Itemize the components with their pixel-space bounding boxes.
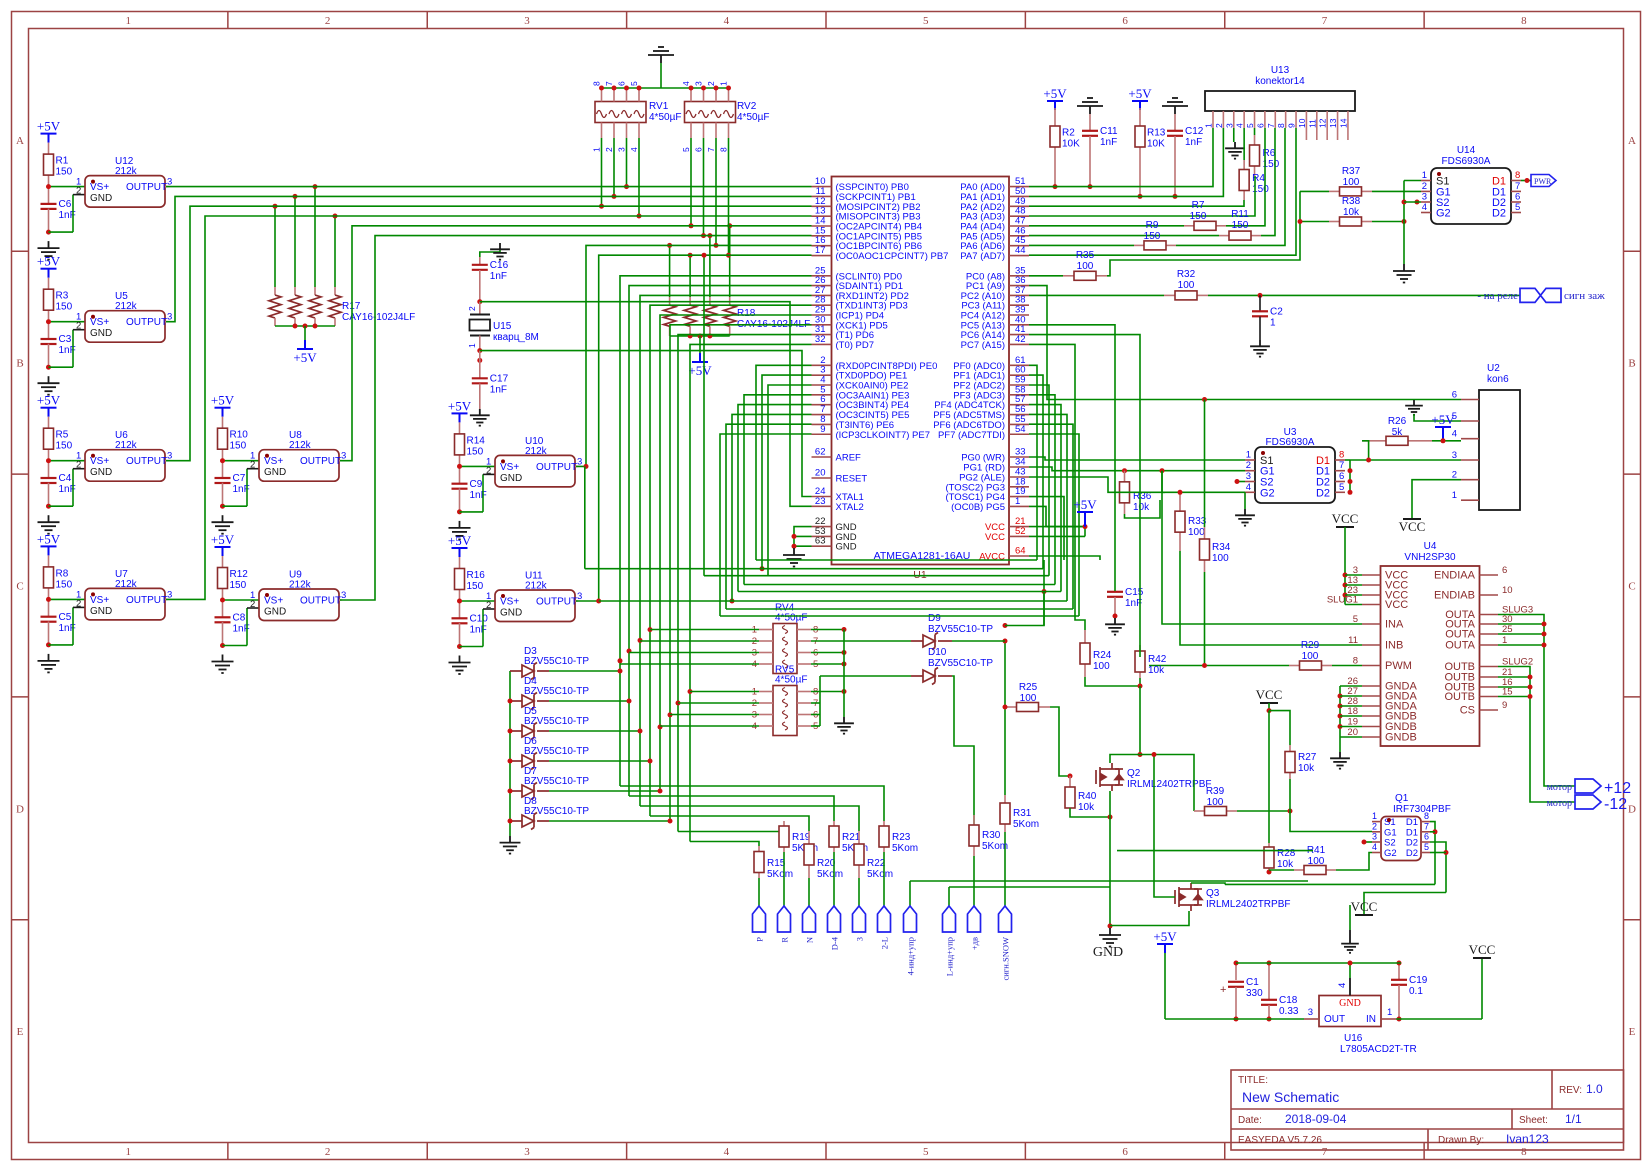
wire U8 out to PB4 [340, 226, 812, 461]
wire [49, 598, 86, 600]
svg-text:100: 100 [1093, 661, 1110, 672]
pin 2 [812, 364, 832, 366]
capacitor C11 1nF [1089, 114, 1091, 131]
svg-text:1: 1 [1204, 123, 1214, 128]
pin 11 [812, 195, 832, 197]
svg-text:PC7 (A15): PC7 (A15) [961, 340, 1005, 351]
svg-text:+5V: +5V [448, 533, 472, 548]
svg-text:OUTA: OUTA [1445, 640, 1475, 652]
pin 12 [812, 205, 832, 207]
wire gnd stem U16 [1349, 963, 1351, 978]
svg-text:5Kom: 5Kom [982, 841, 1008, 852]
svg-text:3: 3 [617, 147, 627, 152]
wire pa7 [1029, 128, 1296, 255]
connector U2 kon6 [1479, 390, 1520, 510]
svg-text:сигн заж: сигн заж [1564, 290, 1605, 302]
wire [690, 138, 692, 226]
svg-text:R27: R27 [1298, 752, 1317, 763]
pin 60 [1009, 374, 1029, 376]
svg-text:R39: R39 [1206, 786, 1225, 797]
svg-text:S2: S2 [1384, 838, 1396, 849]
svg-text:3: 3 [1246, 471, 1251, 482]
pin 5 [812, 394, 832, 396]
svg-text:7: 7 [1266, 123, 1276, 128]
svg-text:PF7 (ADC7TDI): PF7 (ADC7TDI) [938, 430, 1005, 441]
capacitor C8 1nF [222, 600, 224, 617]
svg-text:4: 4 [1422, 202, 1427, 213]
wire RV5 right pins [811, 691, 844, 693]
svg-text:6: 6 [1339, 471, 1344, 482]
ground [46, 504, 51, 509]
svg-text:7: 7 [1424, 821, 1429, 831]
svg-text:1: 1 [719, 81, 729, 86]
svg-text:+5V: +5V [1043, 86, 1067, 101]
svg-text:150: 150 [1144, 231, 1161, 242]
svg-text:B: B [1628, 358, 1635, 370]
wire PWM from R42 area [1148, 665, 1150, 667]
svg-text:10: 10 [1297, 118, 1307, 128]
svg-text:R18: R18 [737, 308, 756, 319]
resistor array RV1 4*50uF [595, 102, 646, 123]
pin 23 [812, 505, 832, 507]
svg-text:VS+: VS+ [90, 317, 109, 328]
pin 42 [1009, 343, 1029, 345]
svg-text:RV1: RV1 [649, 101, 669, 112]
wire U3 drains [1345, 459, 1350, 461]
svg-text:5: 5 [1515, 202, 1520, 213]
svg-text:1: 1 [592, 147, 602, 152]
wire [223, 460, 260, 462]
wire [1372, 221, 1404, 223]
svg-text:C9: C9 [470, 479, 483, 490]
pin 56 [1009, 414, 1029, 416]
svg-text:3: 3 [1308, 1007, 1313, 1018]
connector U13 konektor14 [1205, 91, 1355, 111]
op-amp U10 212k [495, 455, 575, 487]
power VCC for U4 [1336, 526, 1354, 528]
svg-text:(ICP3CLKOINT7) PE7: (ICP3CLKOINT7) PE7 [836, 430, 931, 441]
capacitor C7 1nF [222, 461, 224, 478]
wire pc7 to R24 [1029, 344, 1085, 630]
capacitor C10 1nF [459, 601, 461, 618]
ground [1244, 492, 1246, 509]
wire [720, 615, 1079, 617]
wire R40 bottom to Q2 source [1070, 808, 1110, 817]
svg-text:2: 2 [325, 1146, 331, 1158]
ground for U1 [794, 527, 812, 547]
wire vertical at U14 [1403, 181, 1405, 265]
svg-text:+5V: +5V [37, 531, 61, 546]
capacitor C12 1nF [1174, 114, 1176, 131]
net flag D-4 [833, 852, 835, 906]
capacitor C9 1nF [459, 466, 461, 483]
pin 27 [1362, 695, 1381, 697]
svg-text:2: 2 [1246, 460, 1251, 471]
resistor R13 10K [1139, 108, 1141, 126]
wire from PB7 line down [703, 255, 705, 576]
op-amp U6 212k [85, 450, 165, 482]
svg-text:CS: CS [1460, 705, 1475, 717]
svg-text:C12: C12 [1185, 126, 1204, 137]
svg-text:+5V: +5V [1073, 497, 1097, 512]
wire R41 to Q1 G2 [1336, 853, 1372, 871]
ground [843, 630, 845, 718]
svg-text:4: 4 [1452, 429, 1457, 440]
op-amp U11 212k [495, 590, 575, 622]
svg-text:7: 7 [1322, 15, 1328, 27]
wire [756, 559, 1037, 561]
svg-text:RV2: RV2 [737, 101, 757, 112]
wire bottom bus y841 [690, 842, 759, 847]
wire AVCC [1029, 556, 1100, 560]
pin 52 [1009, 535, 1029, 537]
svg-text:2: 2 [486, 465, 491, 476]
svg-text:ENDIAB: ENDIAB [1434, 590, 1475, 602]
svg-text:C15: C15 [1125, 587, 1144, 598]
wire D10 [820, 675, 911, 677]
wire [629, 286, 812, 796]
pin 22 [812, 526, 832, 528]
wire [1300, 221, 1329, 223]
svg-text:12: 12 [1318, 118, 1328, 128]
pin 19 [1362, 726, 1381, 728]
svg-text:212k: 212k [115, 166, 138, 177]
svg-text:8: 8 [1521, 1146, 1527, 1158]
wire [732, 414, 812, 601]
svg-text:3: 3 [524, 15, 530, 27]
net flag R [783, 852, 785, 906]
pin 61 [1009, 364, 1029, 366]
svg-text:7: 7 [706, 147, 716, 152]
pin 46 [1009, 235, 1029, 237]
svg-text:D2: D2 [1406, 838, 1418, 849]
wire PG5 [1029, 506, 1085, 526]
svg-text:VCC: VCC [1351, 899, 1378, 914]
svg-text:64: 64 [1015, 546, 1026, 557]
wire pa1 [1029, 128, 1223, 196]
svg-text:A: A [1628, 135, 1636, 147]
ground [220, 643, 225, 648]
wire [49, 644, 74, 646]
svg-text:5Kom: 5Kom [767, 869, 793, 880]
svg-text:4*50µF: 4*50µF [649, 112, 681, 123]
resistor network R18 CAY16-102J4LF [669, 297, 671, 305]
pin 16 [812, 245, 832, 247]
svg-text:8: 8 [592, 81, 602, 86]
svg-text:100: 100 [1343, 177, 1360, 188]
resistor R28 10k [1268, 711, 1270, 843]
resistor R26 5k [1362, 440, 1386, 442]
pin 21 [1009, 526, 1029, 528]
svg-text:8: 8 [1515, 170, 1520, 181]
svg-text:4: 4 [1235, 123, 1245, 128]
wire bus to R20 top [650, 816, 809, 831]
wire U7 out to PB3 [166, 216, 812, 599]
ground [1393, 264, 1415, 283]
svg-text:0.1: 0.1 [1409, 986, 1423, 997]
pin 50 [1009, 195, 1029, 197]
wire U12 out to PB0 [166, 186, 812, 188]
svg-text:VCC: VCC [1256, 687, 1283, 702]
wire OUTB bundle [1498, 667, 1575, 803]
svg-text:+5V: +5V [1128, 86, 1152, 101]
wire bottom bus y831 [678, 831, 784, 833]
svg-text:R1: R1 [56, 156, 69, 167]
wire [1029, 365, 1037, 560]
svg-text:150: 150 [467, 446, 484, 457]
net flag 3 [858, 878, 860, 906]
svg-text:5: 5 [629, 81, 639, 86]
svg-text:INB: INB [1385, 640, 1403, 652]
pin 6 [812, 404, 832, 406]
svg-text:+5V: +5V [37, 119, 61, 134]
svg-text:kon6: kon6 [1487, 374, 1509, 385]
svg-text:7: 7 [1322, 1146, 1328, 1158]
svg-text:D: D [1628, 803, 1636, 815]
svg-text:212k: 212k [289, 440, 312, 451]
transistor Q3 IRLML2402TRPBF [1175, 883, 1202, 911]
svg-text:R40: R40 [1078, 791, 1097, 802]
pin 10 [1480, 594, 1499, 596]
wire [1029, 424, 1073, 609]
svg-text:A: A [16, 135, 24, 147]
ground [1162, 98, 1188, 114]
resistor R12 150 [222, 556, 224, 568]
wire VCC pins [1029, 526, 1085, 528]
svg-text:(OC0AOC1CPCINT7) PB7: (OC0AOC1CPCINT7) PB7 [836, 251, 949, 262]
ground for U4 [1339, 686, 1341, 737]
svg-text:AREF: AREF [836, 453, 862, 464]
svg-text:D: D [16, 803, 24, 815]
svg-text:L-инд+упр: L-инд+упр [945, 937, 955, 976]
pin 26 [812, 285, 832, 287]
svg-text:R16: R16 [467, 570, 486, 581]
op-amp U5 212k [85, 311, 165, 343]
capacitor C4 1nF [48, 461, 50, 478]
pin 7 [812, 414, 832, 416]
svg-text:1: 1 [1270, 318, 1276, 329]
svg-text:2: 2 [604, 147, 614, 152]
ground [220, 504, 225, 509]
svg-text:2: 2 [706, 81, 716, 86]
wire bottom rail [1165, 1018, 1304, 1020]
svg-text:R25: R25 [1019, 682, 1038, 693]
svg-text:Q3: Q3 [1206, 888, 1220, 899]
capacitor C18 0.33 [1268, 963, 1270, 999]
pin 4 [812, 384, 832, 386]
resistor R37 100 [1329, 190, 1340, 192]
svg-text:R35: R35 [1076, 250, 1095, 261]
svg-text:6: 6 [617, 81, 627, 86]
svg-text:GND: GND [836, 542, 857, 553]
svg-text:- на реле: - на реле [1477, 290, 1518, 302]
svg-text:10K: 10K [1147, 139, 1165, 150]
wire [1208, 294, 1520, 296]
svg-text:OUTPUT: OUTPUT [126, 182, 167, 193]
svg-text:3: 3 [1224, 123, 1234, 128]
svg-text:D2: D2 [1492, 208, 1506, 220]
pin 32 [812, 343, 832, 345]
svg-text:+5V: +5V [293, 350, 317, 365]
svg-text:IRF7304PBF: IRF7304PBF [1393, 804, 1451, 815]
svg-text:150: 150 [56, 579, 73, 590]
svg-text:5: 5 [1424, 842, 1429, 852]
resistor R16 150 [459, 557, 461, 569]
wire mid bundle [1043, 592, 1045, 626]
svg-text:7: 7 [1515, 181, 1520, 192]
svg-text:N: N [805, 937, 815, 943]
resistor R23 5Kom [883, 821, 885, 826]
svg-text:GND: GND [500, 608, 522, 619]
pin 20 [812, 477, 832, 479]
svg-text:OUTPUT: OUTPUT [300, 456, 341, 467]
svg-text:150: 150 [56, 302, 73, 313]
resistor R39 100 [1194, 810, 1205, 812]
svg-text:OUTPUT: OUTPUT [126, 595, 167, 606]
svg-text:C3: C3 [59, 334, 72, 345]
svg-text:C2: C2 [1270, 307, 1283, 318]
wire RV4 right pins [811, 629, 844, 631]
svg-text:R13: R13 [1147, 128, 1166, 139]
svg-text:C17: C17 [490, 374, 509, 385]
svg-text:D9: D9 [928, 613, 941, 624]
pin 33 [1009, 456, 1029, 458]
svg-text:AVCC: AVCC [979, 552, 1005, 563]
wire U10 out to PB6 [576, 245, 812, 466]
wire top rail [1236, 962, 1401, 964]
wire [314, 187, 316, 287]
wire [274, 206, 276, 287]
wire [585, 568, 1043, 570]
wire diode bus [509, 671, 511, 836]
svg-text:OUTB: OUTB [1444, 691, 1475, 703]
svg-text:+5V: +5V [37, 393, 61, 408]
wire pa2 [1029, 200, 1244, 206]
svg-text:R7: R7 [1192, 200, 1205, 211]
pin 51 [1009, 186, 1029, 188]
svg-text:GND: GND [1339, 998, 1361, 1009]
svg-text:8: 8 [1339, 450, 1344, 461]
svg-text:Ivan123: Ivan123 [1506, 1132, 1549, 1146]
wire bus to R21 top [629, 796, 834, 821]
wire kon6 pin2 VCC [1412, 480, 1461, 519]
svg-text:5: 5 [923, 15, 929, 27]
svg-text:6: 6 [1122, 15, 1128, 27]
wire Q2 drain chain [1110, 755, 1194, 812]
pin 19 [1009, 496, 1029, 498]
wire D9 [811, 640, 911, 642]
svg-text:(OC0B) PG5: (OC0B) PG5 [951, 502, 1005, 513]
wire bus to R22 top [640, 806, 859, 831]
svg-text:2: 2 [250, 599, 255, 610]
svg-text:Sheet:: Sheet: [1519, 1115, 1548, 1126]
pin SLUG2 [1480, 666, 1499, 668]
svg-text:100: 100 [1178, 280, 1195, 291]
op-amp U7 212k [85, 588, 165, 620]
resistor R6 150 [1254, 128, 1256, 135]
svg-text:1nF: 1nF [470, 625, 487, 636]
resistor R36 10k [1124, 471, 1126, 482]
resistor R19 5Kom [783, 821, 785, 826]
ground [500, 836, 521, 854]
svg-text:C16: C16 [490, 260, 509, 271]
wire [1226, 128, 1265, 226]
wire kon6 pin6 [1029, 286, 1461, 400]
pin 8 [1362, 665, 1381, 667]
svg-text:10k: 10k [1133, 502, 1150, 513]
crystal U15 kvarc_8M [477, 299, 482, 304]
svg-text:6: 6 [1502, 565, 1507, 576]
pin 48 [1009, 215, 1029, 217]
pin 13 [812, 215, 832, 217]
svg-text:62: 62 [815, 447, 826, 458]
pin 62 [812, 456, 832, 458]
wire [549, 700, 629, 702]
svg-text:2: 2 [76, 186, 81, 197]
svg-text:U15: U15 [493, 321, 512, 332]
svg-text:C5: C5 [59, 612, 72, 623]
wire R39 right [1237, 810, 1290, 812]
wire pc0 to R37 [1107, 191, 1300, 275]
svg-text:42: 42 [1015, 334, 1026, 345]
resistor R42 10k [1139, 645, 1141, 651]
resistor R14 150 [459, 422, 461, 434]
svg-text:212k: 212k [115, 301, 138, 312]
svg-text:FDS6930A: FDS6930A [1266, 437, 1315, 448]
ground [457, 509, 462, 514]
svg-text:1nF: 1nF [490, 271, 507, 282]
pin 30 [812, 324, 832, 326]
svg-text:4: 4 [724, 1146, 730, 1158]
svg-text:VS+: VS+ [500, 597, 519, 608]
svg-text:R4: R4 [1252, 173, 1265, 184]
svg-text:4-инд+упр: 4-инд+упр [906, 937, 916, 975]
resistor R22 5Kom [858, 831, 860, 844]
transistor Q1 IRF7304PBF [1381, 817, 1421, 861]
wire [768, 385, 812, 576]
wire [1029, 385, 1049, 576]
svg-text:150: 150 [467, 581, 484, 592]
svg-text:CAY16-102J4LF: CAY16-102J4LF [342, 312, 415, 323]
svg-text:R24: R24 [1093, 650, 1112, 661]
wire RV4 joins [648, 627, 653, 632]
capacitor C15 1nF [1107, 591, 1123, 593]
wire [1029, 395, 1055, 585]
wire [549, 760, 650, 762]
wire U3 S1 [1029, 457, 1245, 460]
svg-text:L7805ACD2T-TR: L7805ACD2T-TR [1340, 1044, 1417, 1055]
svg-text:5Kom: 5Kom [892, 843, 918, 854]
svg-text:7: 7 [1339, 460, 1344, 471]
resistor R33 100 [1179, 492, 1181, 511]
resistor network R17 CAY16-102J4LF [274, 287, 276, 295]
wire U9 out to PB5 [340, 236, 812, 600]
svg-text:+5V: +5V [688, 363, 712, 378]
wire [599, 600, 1067, 602]
transistor Q2 IRLML2402TRPBF [1096, 763, 1123, 791]
svg-text:VS+: VS+ [90, 456, 109, 467]
svg-text:VCC: VCC [1469, 942, 1496, 957]
svg-text:C19: C19 [1409, 975, 1428, 986]
resistor R20 5Kom [808, 831, 810, 844]
svg-text:8: 8 [1521, 15, 1527, 27]
ground [480, 248, 500, 257]
driver U4 VNH2SP30 [1381, 566, 1480, 746]
wire D9 node to R31 [1004, 641, 1006, 795]
svg-text:3: 3 [1422, 192, 1427, 203]
pin 41 [1009, 334, 1029, 336]
svg-text:+5V: +5V [1153, 929, 1177, 944]
